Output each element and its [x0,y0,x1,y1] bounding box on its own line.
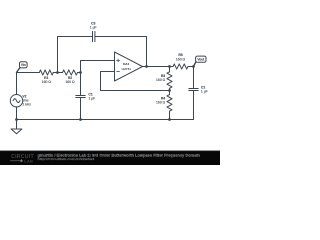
wire op-amp - input feedback loop [101,72,170,91]
junction R3 R4 midpoint node C [168,89,171,92]
svg-text:Vin: Vin [21,63,26,67]
capacitor C1 plates [76,96,85,98]
resistor R5 [173,64,188,69]
resistor R3 [167,72,172,89]
svg-text:OA1: OA1 [123,62,130,66]
voltage source V2 sine symbol [13,99,20,103]
wire R3 bottom to node C [169,88,171,94]
wire C2 bottom to ground rail [193,91,195,120]
junction Vout node [192,65,195,68]
svg-text:LAB: LAB [24,159,33,164]
CircuitLab logo second row wire-diamond-LAB [10,160,22,162]
footer bar [0,151,220,166]
junction ground rail at C1 [79,118,82,121]
wire source top to Vin corner [16,73,18,95]
Vin tag box [20,62,28,68]
wire ground stub [16,120,18,130]
wire bottom ground rail [17,119,194,121]
svg-text:1 kHz: 1 kHz [22,103,31,107]
ground symbol [11,129,22,134]
svg-text:Vout: Vout [197,58,205,62]
wire C3 to output riser [95,37,147,67]
junction node A [56,71,59,74]
wire node B down to C1 [80,73,82,96]
resistor R2 [63,70,78,75]
svg-text:1 µF: 1 µF [90,26,97,30]
wire node B riser to op-amp + input [81,61,115,73]
junction ground rail at R4 [168,118,171,121]
junction op-amp output node [145,65,148,68]
capacitor C3 plates [93,31,95,41]
svg-text:1 µF: 1 µF [201,90,208,94]
svg-text:http://circuitlab.com/c/9ka6s4: http://circuitlab.com/c/9ka6s4 [38,157,95,161]
wire op-amp output [143,66,170,68]
junction R3 top [168,65,171,68]
voltage source V2 circle [10,95,22,107]
wire R4 bottom to ground rail [169,111,171,119]
op-amp U1 triangle [115,52,143,81]
Vout tag pointer [194,62,196,66]
svg-text:160 Ω: 160 Ω [42,80,52,84]
resistor R1 [39,70,53,75]
wire output node to R5 [170,66,174,68]
capacitor C2 plates [189,89,198,91]
wire C1 bottom to ground rail [80,98,82,120]
wire R1 to node A [53,72,62,74]
wire R2 to node B [78,72,81,74]
wire Vout node down to C2 [193,67,195,89]
wire Vin corner to R1 [17,72,40,74]
resistor R4 [167,95,172,112]
svg-text:LM741: LM741 [122,67,132,71]
Vin tag pointer [17,68,20,73]
wire source bottom to ground rail [16,107,18,120]
op-amp + input pin mark [116,59,119,62]
svg-text:1 µF: 1 µF [88,97,95,101]
wire node A riser to top feedback rail [58,37,93,73]
svg-text:160 Ω: 160 Ω [156,78,166,82]
wire R5 to Vout node [188,66,194,68]
op-amp - input pin mark [116,71,119,73]
wire R3 top stub [169,67,171,72]
svg-text:160 Ω: 160 Ω [176,57,186,61]
svg-text:160 Ω: 160 Ω [156,100,166,104]
junction ground rail at source [15,118,18,121]
svg-text:160 Ω: 160 Ω [65,80,75,84]
junction node B [79,71,82,74]
Vout tag box [196,56,206,62]
